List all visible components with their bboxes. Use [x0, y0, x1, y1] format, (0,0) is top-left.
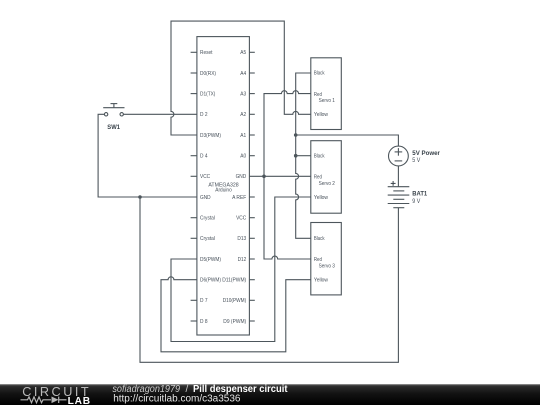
svg-text:VCC: VCC — [236, 216, 246, 222]
servo U2 box Servo 1 — [311, 58, 342, 130]
wire black net tap to servo2 Black — [296, 155, 311, 157]
svg-text:Servo 2: Servo 2 — [319, 181, 335, 187]
svg-text:http://circuitlab.com/c3a3536: http://circuitlab.com/c3a3536 — [113, 394, 241, 405]
footer bar — [0, 385, 540, 405]
svg-text:Crystal: Crystal — [200, 216, 215, 222]
svg-text:Yellow: Yellow — [314, 112, 329, 118]
svg-text:LAB: LAB — [68, 396, 91, 405]
servo 1 pin labels — [314, 71, 335, 118]
svg-text:D10(PWM): D10(PWM) — [223, 298, 247, 304]
svg-text:A4: A4 — [240, 71, 246, 77]
switch SW1 pushbutton — [103, 104, 124, 116]
svg-text:D11(PWM): D11(PWM) — [222, 278, 246, 284]
svg-text:Arduino: Arduino — [215, 187, 232, 193]
svg-text:D0(RX): D0(RX) — [200, 71, 216, 77]
svg-text:Red: Red — [314, 92, 322, 98]
servo U4 box Servo 3 — [311, 223, 342, 295]
junction dot red net with IC right GND wire — [262, 175, 266, 179]
svg-text:D 8: D 8 — [200, 319, 208, 325]
IC pin labels left — [200, 50, 221, 325]
wire black net to 5V source top — [296, 135, 399, 146]
junction dot on GND wire — [138, 195, 142, 199]
svg-text:Black: Black — [314, 236, 325, 242]
wire D5(PWM) to servo2 Yellow via bottom, hop over servo3 red row — [171, 197, 311, 342]
wire D6(PWM) to servo3 Yellow via bottom, hop over D5 vertical — [161, 277, 311, 352]
logo diode triangle — [52, 397, 59, 404]
power source V1 5V: circle symbol — [389, 146, 409, 166]
wire SW1 left terminal down to GND row — [98, 114, 197, 197]
svg-text:VCC: VCC — [200, 174, 210, 180]
svg-text:Black: Black — [314, 71, 325, 77]
wire GND junction down along bottom to battery negative — [140, 197, 398, 362]
svg-text:Yellow: Yellow — [314, 195, 329, 201]
svg-text:D13: D13 — [237, 236, 246, 242]
svg-text:BAT1: BAT1 — [412, 190, 427, 197]
wire 5V source bottom to battery top — [397, 166, 399, 187]
svg-text:GND: GND — [200, 195, 211, 201]
svg-text:D 4: D 4 — [200, 154, 208, 160]
svg-text:A REF: A REF — [232, 195, 247, 201]
svg-text:D3(PWM): D3(PWM) — [200, 133, 221, 139]
wire SW1 right terminal to D2 — [123, 113, 196, 115]
svg-text:GND: GND — [236, 174, 247, 180]
op-amp frame: main IC box U1 ATMEGA328 Arduino — [197, 37, 250, 335]
IC left pin stubs — [191, 52, 197, 321]
svg-text:A5: A5 — [240, 50, 246, 56]
svg-text:D12: D12 — [238, 257, 247, 263]
svg-text:SW1: SW1 — [107, 124, 120, 131]
IC right pin stubs — [249, 52, 254, 321]
wire IC right GND pin to Servo2 Red — [249, 175, 310, 177]
battery BAT1 plates — [388, 187, 410, 208]
svg-text:Red: Red — [314, 257, 322, 263]
svg-text:A0: A0 — [240, 154, 246, 160]
svg-text:5 V: 5 V — [412, 157, 421, 164]
svg-text:A3: A3 — [240, 92, 246, 98]
wire servo1 Red horizontal with hops, and vertical red net — [264, 91, 311, 259]
svg-text:A1: A1 — [240, 133, 246, 139]
battery plus mark — [391, 181, 396, 186]
svg-text:D9 (PWM): D9 (PWM) — [223, 319, 246, 325]
servo 2 pin labels — [314, 153, 335, 200]
svg-text:9 V: 9 V — [412, 198, 421, 205]
svg-text:Servo 3: Servo 3 — [319, 264, 335, 270]
svg-text:D6(PWM): D6(PWM) — [200, 278, 221, 284]
IC pin labels right — [222, 50, 246, 325]
svg-text:D1(TX): D1(TX) — [200, 92, 215, 98]
IC name label ATMEGA328 Arduino — [208, 182, 238, 193]
svg-text:Reset: Reset — [200, 50, 213, 56]
servo 3 pin labels — [314, 236, 335, 284]
junction dot black net at servo2 Black — [294, 154, 298, 158]
wire D3(PWM) up over top to Servo1 Yellow (hop over D2 wire) — [171, 21, 311, 135]
servo U3 box Servo 2 — [311, 141, 342, 214]
svg-text:Black: Black — [314, 153, 325, 159]
logo motif wire resistor diode — [21, 397, 67, 403]
svg-text:Red: Red — [314, 175, 322, 181]
svg-text:Servo 1: Servo 1 — [319, 98, 335, 104]
svg-text:Crystal: Crystal — [200, 236, 215, 242]
svg-text:D 7: D 7 — [200, 298, 208, 304]
wire black net: servo1 Black down to servo3 Black with hops, plus taps — [296, 73, 311, 238]
junction dot black net at A1 row — [294, 133, 298, 137]
svg-text:A2: A2 — [240, 112, 246, 118]
svg-text:D5(PWM): D5(PWM) — [200, 257, 221, 263]
svg-text:Yellow: Yellow — [314, 278, 329, 284]
svg-text:D 2: D 2 — [200, 112, 208, 118]
